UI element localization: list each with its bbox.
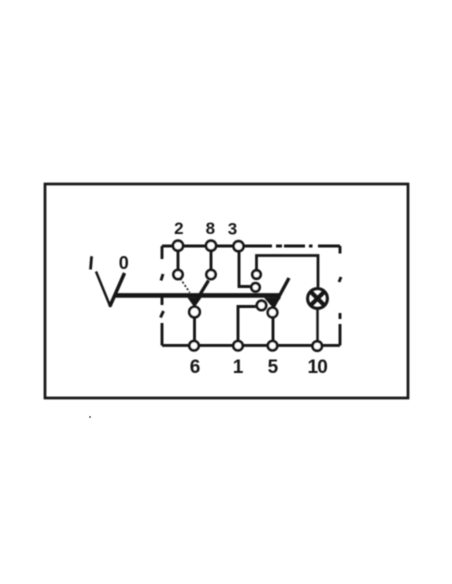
svg-text:10: 10 (308, 357, 328, 378)
svg-text:2: 2 (174, 219, 183, 238)
svg-text:6: 6 (190, 357, 201, 378)
svg-text:8: 8 (206, 219, 215, 238)
svg-text:5: 5 (268, 357, 279, 378)
svg-text:0: 0 (119, 253, 129, 273)
svg-text:1: 1 (233, 357, 244, 378)
svg-text:3: 3 (228, 220, 237, 239)
